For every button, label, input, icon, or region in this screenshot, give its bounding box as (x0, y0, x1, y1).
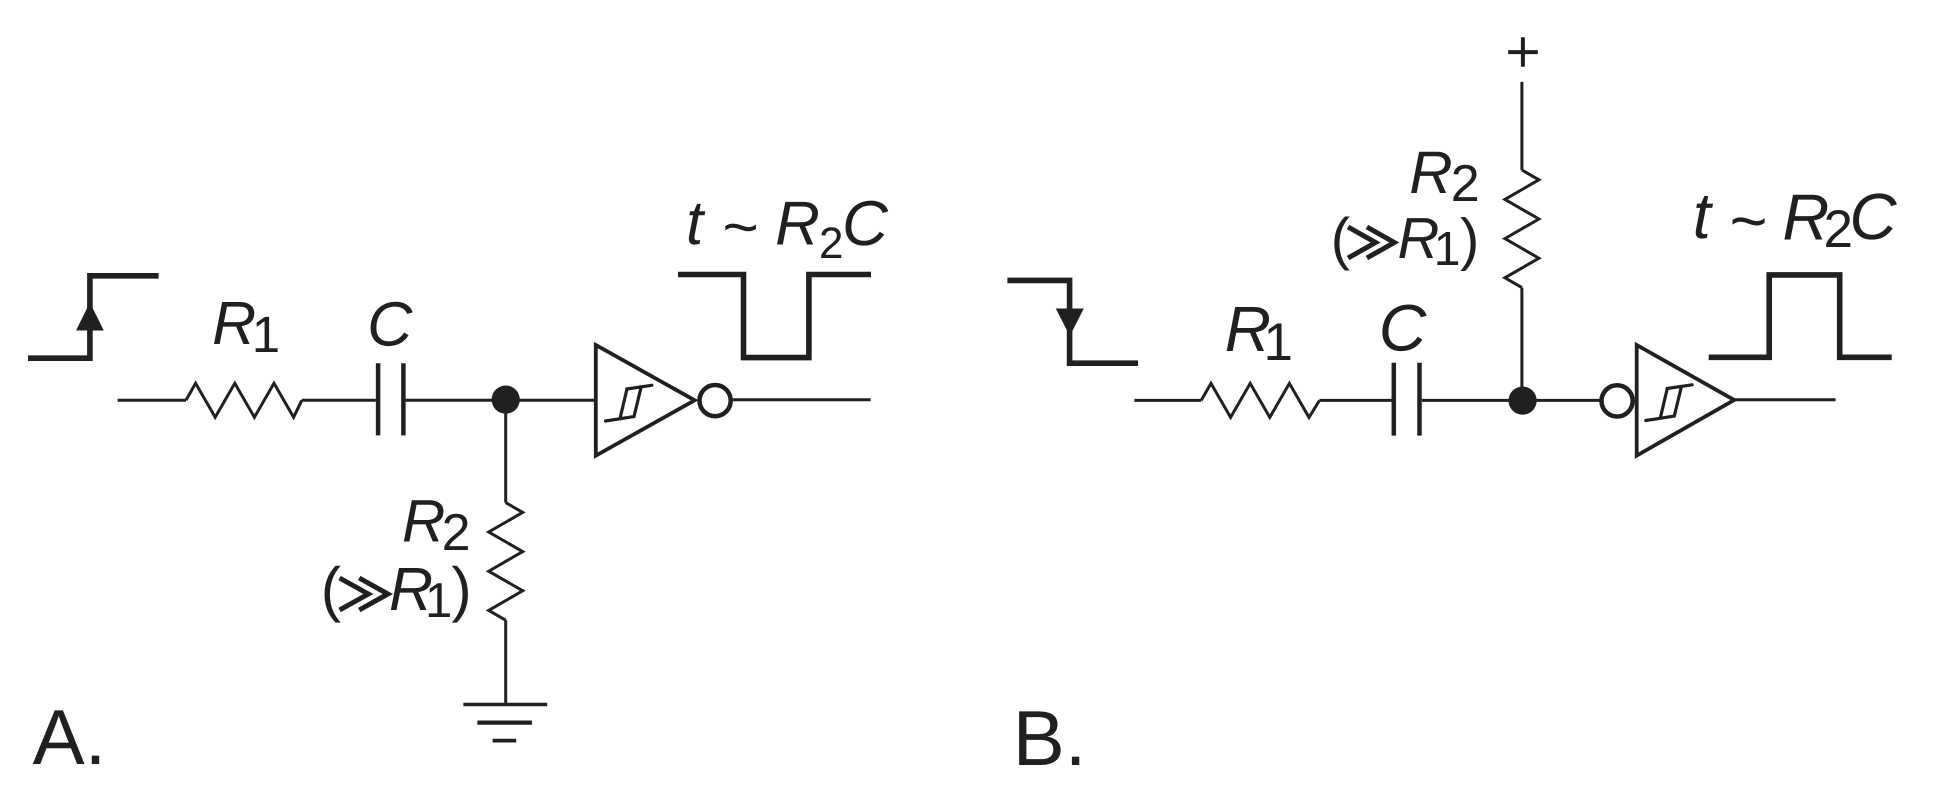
svg-text:C: C (842, 188, 889, 259)
svg-text:C: C (1379, 291, 1427, 365)
svg-text:1: 1 (425, 574, 452, 628)
wire: R2 to ground (A) (504, 620, 507, 704)
node junction dot (A) (492, 386, 520, 414)
circuit A input rising-edge arrow (76, 303, 104, 331)
resistor R1 (A) (186, 383, 302, 417)
svg-text:B.: B. (1013, 694, 1087, 782)
hysteresis symbol (A) (606, 385, 652, 421)
svg-text:1: 1 (1264, 313, 1293, 372)
wire: R2 to node (B) (1520, 288, 1523, 400)
capacitor C (B) (1394, 363, 1420, 436)
output bubble (A) (700, 385, 731, 416)
svg-text:R: R (1782, 181, 1829, 254)
output positive pulse waveform (B) (1709, 275, 1892, 357)
wire: C to Schmitt inverter input through node (A) (406, 399, 594, 402)
wire: R1 to capacitor C (B) (1320, 399, 1392, 402)
svg-text:2: 2 (442, 504, 471, 562)
input bubble (B) (1602, 385, 1633, 416)
svg-text:(: ( (1331, 207, 1350, 272)
circuit B input falling-edge arrow (1056, 309, 1084, 337)
svg-text:t: t (686, 189, 706, 258)
wire: node down to R2 (A) (504, 400, 507, 503)
svg-text:(: ( (321, 555, 341, 623)
wire: input to R1 (B) (1134, 399, 1201, 402)
svg-text:R: R (212, 289, 256, 357)
wire: input to R1 (A) (118, 399, 186, 402)
svg-text:R: R (775, 190, 820, 259)
svg-text:2: 2 (819, 219, 843, 268)
wire: V+ down to R2 (B) (1520, 82, 1523, 170)
svg-text:~: ~ (722, 193, 758, 262)
Schmitt-trigger buffer triangle (B) (1637, 345, 1735, 456)
wire: inverter output (A) (733, 398, 871, 401)
circuit A input rising-edge step waveform (28, 276, 159, 358)
svg-text:1: 1 (252, 306, 280, 363)
hysteresis symbol (B) (1646, 385, 1692, 421)
Schmitt-trigger inverter triangle (A) (596, 345, 695, 456)
resistor R1 (B) (1201, 383, 1319, 417)
wire: inverter output (B) (1735, 398, 1836, 401)
svg-text:A.: A. (33, 693, 107, 781)
svg-text:C: C (367, 290, 413, 360)
wire: C to input bubble through node (B) (1422, 399, 1600, 402)
svg-text:2: 2 (1451, 155, 1480, 213)
svg-text:1: 1 (1434, 223, 1461, 276)
svg-text:~: ~ (1729, 184, 1767, 257)
resistor R2 vertical (B) (1505, 170, 1539, 288)
wire: R1 to capacitor C (A) (302, 399, 376, 402)
V+ supply plus symbol (B) (1508, 37, 1538, 67)
ground symbol (A) (463, 703, 547, 707)
svg-text:t: t (1693, 179, 1714, 252)
svg-text:R: R (1409, 139, 1452, 206)
svg-text:C: C (1849, 180, 1897, 253)
svg-text:R: R (402, 488, 445, 555)
svg-text:): ) (451, 555, 471, 623)
node junction dot (B) (1509, 387, 1537, 415)
resistor R2 vertical (A) (489, 503, 523, 621)
circuit B input falling-edge step waveform (1007, 280, 1138, 363)
output negative pulse waveform (A) (678, 275, 871, 358)
svg-text:): ) (1460, 207, 1479, 272)
capacitor C (A) (378, 363, 403, 435)
